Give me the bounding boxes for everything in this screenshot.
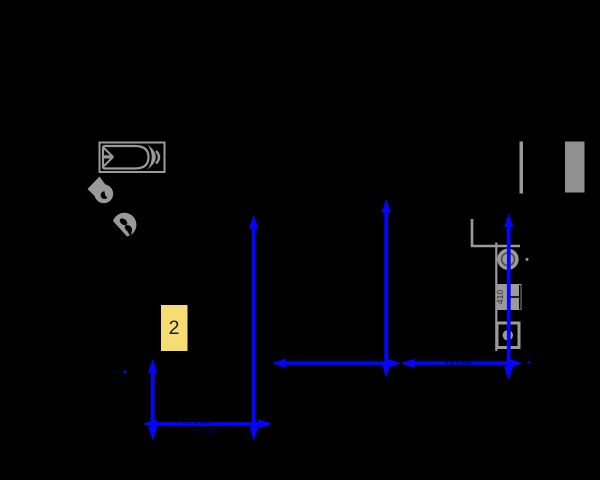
bathtub head-end arc outer: [156, 151, 159, 164]
H2 mid left arrow: [403, 359, 415, 367]
washbasin body: [113, 213, 136, 237]
stray blue dot left: [123, 370, 126, 373]
pipe stub V4: [151, 368, 155, 431]
H1 left arrow: [145, 420, 157, 428]
bathtub drain stub: [104, 155, 114, 158]
pipe run H2 left segment: [281, 361, 392, 365]
pipe riser V3: [507, 223, 511, 372]
riser V2 down arrow: [382, 364, 390, 376]
bathtub outer rim: [100, 143, 165, 173]
toilet bowl opening: [101, 191, 108, 199]
pipe run H1: [152, 422, 263, 426]
toilet tank: [88, 177, 108, 199]
bathtub drain chevron lower: [104, 158, 112, 166]
H2 mid right arrow: [388, 359, 400, 367]
pipe riser V2: [384, 208, 388, 368]
washing machine drum: [497, 249, 518, 270]
H2 left arrow: [274, 359, 286, 367]
room tag 2 box: [161, 305, 188, 351]
stub V4 up arrow: [149, 361, 157, 373]
H1 right arrow: [259, 420, 271, 428]
washbasin bowl left: [118, 217, 128, 227]
riser V1 down arrow: [250, 427, 258, 439]
bathtub head-end arc inner: [148, 145, 156, 170]
bathtub inner basin: [103, 146, 149, 169]
svg-text:2.0-0.020: 2.0-0.020: [191, 430, 219, 436]
wall corner L: [472, 219, 520, 246]
stub V4 down arrow: [149, 427, 157, 439]
svg-text:410: 410: [495, 290, 505, 304]
pipe run H2 right segment: [410, 361, 513, 365]
svg-text:2.0-0.020: 2.0-0.020: [183, 420, 211, 426]
410 appliance divider: [508, 296, 520, 298]
washing machine drum inner ring: [502, 253, 515, 266]
pipe riser V1: [252, 224, 256, 431]
toilet bowl: [94, 184, 113, 203]
stray blue dash right: [528, 362, 531, 364]
bathtub drain chevron upper: [104, 148, 112, 156]
floor-drain strainer: [503, 330, 513, 340]
top-right thin partition bar: [520, 142, 524, 194]
washbasin drain notch: [127, 230, 132, 237]
top-right column block: [565, 142, 585, 193]
riser V3 down arrow: [505, 367, 513, 379]
svg-text:2: 2: [169, 317, 180, 339]
H2 right arrow: [509, 359, 521, 367]
floor-drain square: [497, 323, 519, 348]
riser V2 up arrow: [382, 201, 390, 213]
svg-text:2.0-0.020: 2.0-0.020: [445, 362, 473, 368]
fixture column left wall line: [495, 243, 497, 352]
riser V1 up arrow: [250, 217, 258, 229]
washbasin bowl right: [123, 224, 133, 233]
riser V3 up arrow: [505, 215, 513, 227]
410 appliance right edge line: [519, 285, 521, 310]
washing machine side dot: [526, 258, 529, 261]
410 appliance box: [497, 284, 522, 310]
